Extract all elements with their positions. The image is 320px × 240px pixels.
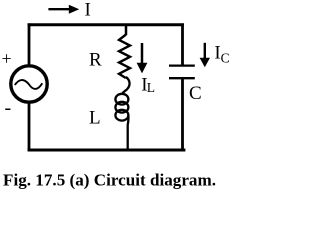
svg-text:C: C [189,83,202,104]
svg-text:Fig. 17.5 (a) Circuit diagram.: Fig. 17.5 (a) Circuit diagram. [3,171,216,190]
svg-text:L: L [147,80,155,95]
svg-text:C: C [221,51,230,66]
inductor L exit curve + wire to bottom [127,115,130,151]
svg-text:R: R [89,49,102,70]
wire right vertical lower [181,78,184,150]
source V1 (AC) circle [11,66,47,102]
svg-text:L: L [89,108,101,129]
arrow I (top current arrow) [48,8,70,10]
capacitor C top plate [169,64,195,66]
capacitor C bottom plate [169,77,195,79]
wire middle branch top lead [125,25,128,35]
arrow IL (inductor branch current) [141,43,144,64]
wire bottom horizontal [28,149,186,152]
wire top horizontal [28,23,184,26]
wire left vertical upper [28,23,31,66]
inductor L loop 1 [115,94,128,105]
arrow IC (capacitor branch current) [204,43,206,59]
svg-text:I: I [85,0,91,20]
inductor L entry curve [122,77,130,94]
wire left vertical lower [28,102,31,152]
svg-text:+: + [2,49,12,69]
inductor L loop 2 [115,102,128,113]
wire right vertical upper [181,23,184,64]
source V1 sine wave [15,80,43,89]
inductor L loop 3 [115,110,128,121]
svg-text:-: - [5,97,12,119]
resistor R zigzag [119,35,130,79]
